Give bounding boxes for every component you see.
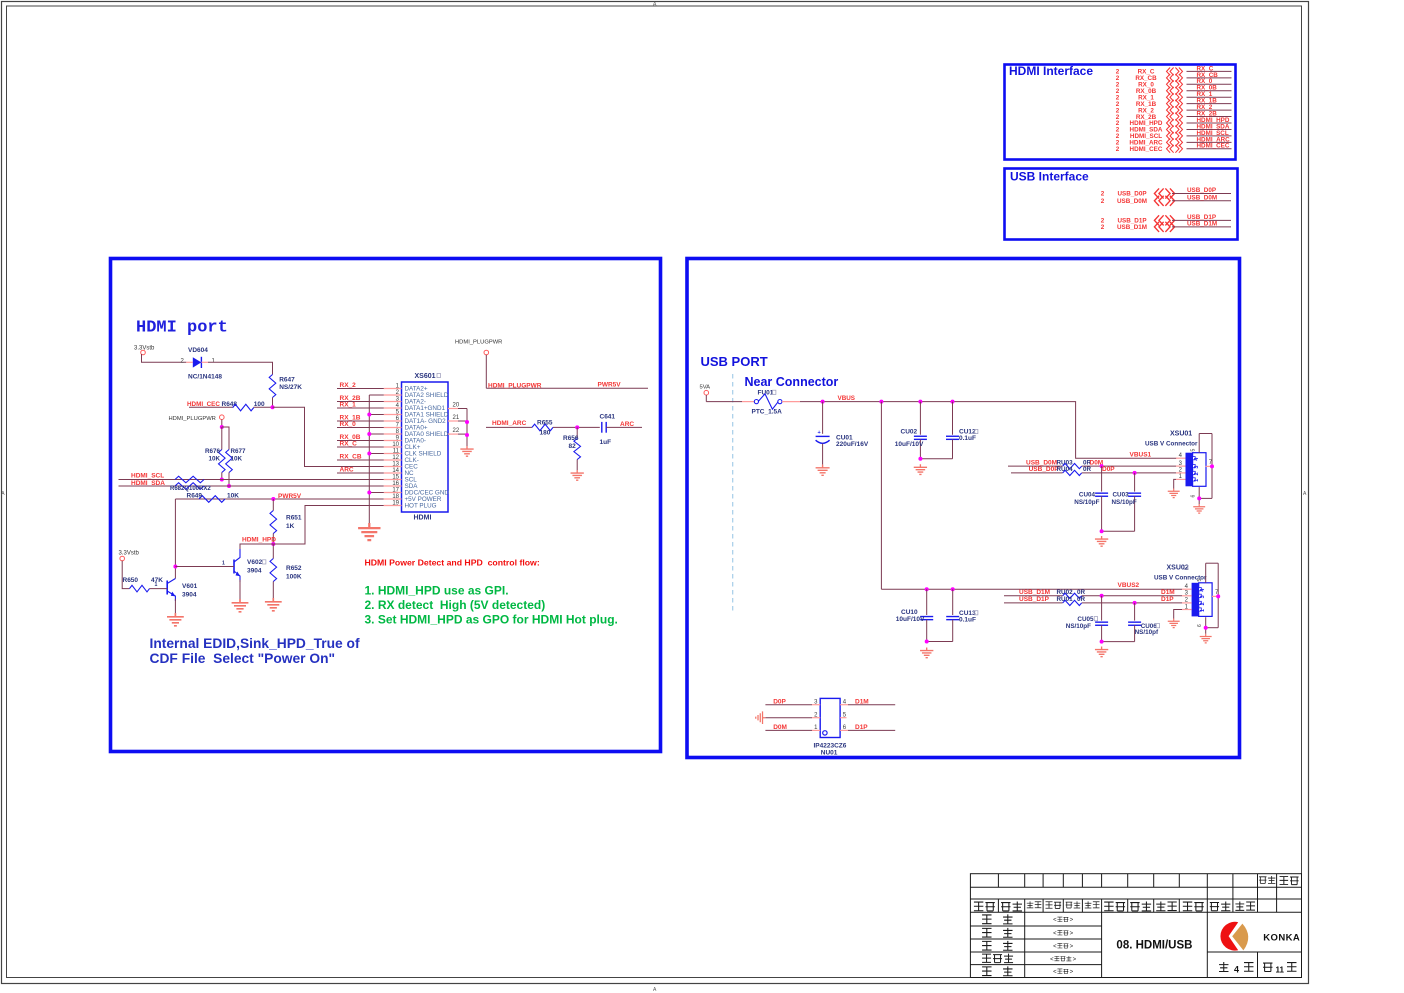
svg-text:5: 5 xyxy=(1197,579,1203,582)
svg-text:<: < xyxy=(1050,957,1054,963)
svg-text:USB_D1M: USB_D1M xyxy=(1187,221,1217,228)
svg-text:RX_CB: RX_CB xyxy=(340,453,362,460)
svg-text:10uF/10V: 10uF/10V xyxy=(895,441,924,448)
svg-text:47K: 47K xyxy=(151,577,163,584)
svg-text:RX_0: RX_0 xyxy=(340,421,357,428)
wire diode to R647 xyxy=(208,362,273,374)
off-page connector USB_D0P xyxy=(1101,187,1231,198)
svg-text:RU02: RU02 xyxy=(1057,589,1074,596)
svg-text:14: 14 xyxy=(392,468,399,474)
svg-text:3: 3 xyxy=(1200,595,1206,598)
svg-text:R676: R676 xyxy=(205,448,221,455)
net label USB_D0P + wire xyxy=(1011,466,1063,473)
wire NU01 pin2 to ground xyxy=(765,717,812,719)
resistor R650 47K xyxy=(123,577,168,592)
svg-text:6: 6 xyxy=(1197,624,1203,627)
junction xyxy=(465,420,469,424)
svg-text:+: + xyxy=(818,430,821,436)
transistor V602 3904 xyxy=(175,549,266,582)
ground (CU04) xyxy=(1095,536,1108,546)
connector XSU02 body xyxy=(1192,583,1213,617)
svg-text:HDMI_SCL: HDMI_SCL xyxy=(131,472,164,479)
svg-text:RU04: RU04 xyxy=(1057,466,1074,473)
svg-text:17: 17 xyxy=(392,488,399,494)
svg-text:NS/10pF: NS/10pF xyxy=(1074,499,1099,506)
ground (XSU02 shield) xyxy=(1200,634,1212,643)
wire CEC to pin 13 xyxy=(273,407,384,466)
svg-text:C641: C641 xyxy=(600,414,616,421)
power terminal 3.3Vstb (top) xyxy=(134,346,155,355)
svg-text:10K: 10K xyxy=(208,456,220,463)
XSU01 shield pins 5/6/7 xyxy=(1190,434,1213,505)
svg-text:USB_D1P: USB_D1P xyxy=(1019,596,1050,603)
junction xyxy=(367,413,371,417)
svg-text:0R: 0R xyxy=(1077,589,1086,596)
net label D1M + wire (NU01 pin4) xyxy=(848,698,895,705)
svg-text:NU01: NU01 xyxy=(821,750,838,757)
title block row labels xyxy=(982,914,1077,975)
junction xyxy=(918,400,922,404)
net label D0P + wire (NU01 pin3) xyxy=(765,698,812,705)
junction xyxy=(1133,601,1137,605)
junction xyxy=(220,478,224,482)
svg-text:22: 22 xyxy=(453,428,460,434)
svg-text:V602: V602 xyxy=(247,559,263,566)
svg-text:HDMI: HDMI xyxy=(414,514,432,521)
junction xyxy=(367,452,371,456)
svg-text:180: 180 xyxy=(540,430,551,437)
power terminal HDMI_PLUGPWR (right) xyxy=(455,340,502,389)
node RX_2 (pin 1) xyxy=(337,382,384,389)
svg-text:2: 2 xyxy=(1200,602,1206,605)
svg-text:3: 3 xyxy=(1194,466,1200,469)
capacitor CU03 NS/10pF xyxy=(1112,473,1142,531)
wire 5VA to fuse xyxy=(706,401,742,403)
junction xyxy=(465,433,469,437)
svg-text:VBUS2: VBUS2 xyxy=(1118,582,1140,589)
ground (XS601 pins 20-22) xyxy=(460,446,473,456)
svg-text:PWR5V: PWR5V xyxy=(278,493,302,500)
svg-text:IP4223CZ6: IP4223CZ6 xyxy=(814,743,847,750)
svg-text:5: 5 xyxy=(1190,449,1196,452)
resistor RU03 0R xyxy=(1057,459,1092,468)
junction xyxy=(821,400,825,404)
svg-text:RX_2: RX_2 xyxy=(340,382,357,389)
svg-text:NS/10pf: NS/10pf xyxy=(1135,629,1159,636)
svg-text:R647: R647 xyxy=(279,377,295,384)
XSU01 pin stubs xyxy=(1176,453,1186,480)
wire CU05/CU06 commons xyxy=(1102,641,1135,643)
net label VBUS1 + wire xyxy=(1130,451,1152,458)
off-page connector RX_CB xyxy=(1116,72,1232,82)
node RX_CB (pin 12) xyxy=(337,453,384,460)
note: HPD steps (green) xyxy=(365,584,618,627)
wire pin 1 to ground (XSU02) xyxy=(1174,610,1182,619)
resistor pack R682 100RX2 xyxy=(170,476,211,492)
svg-text:USB V Connector: USB V Connector xyxy=(1145,441,1198,448)
svg-text:R677: R677 xyxy=(231,448,247,455)
svg-text:<: < xyxy=(1053,931,1057,937)
svg-text:1: 1 xyxy=(222,561,225,567)
svg-text:10K: 10K xyxy=(231,456,243,463)
capacitor CU01 220uF/16V xyxy=(816,402,869,465)
svg-text:4: 4 xyxy=(1234,965,1239,975)
off-page connector RX_2 xyxy=(1116,104,1232,114)
HDMI Interface sheet-symbol box xyxy=(1005,65,1236,160)
svg-text:HDMI_HPD: HDMI_HPD xyxy=(242,536,276,543)
svg-text:1K: 1K xyxy=(286,523,295,530)
wire R647 to junction xyxy=(272,398,274,408)
off-page connector USB_D1P xyxy=(1101,214,1231,225)
net label D0M + wire to pin 3 xyxy=(1082,459,1176,466)
ground (CU01) xyxy=(816,465,830,476)
svg-text:XS601: XS601 xyxy=(415,373,436,380)
svg-text:6: 6 xyxy=(1190,495,1196,498)
wire to R676/R677 xyxy=(221,427,223,450)
svg-text:1: 1 xyxy=(1200,609,1206,612)
XSU02 pin stubs xyxy=(1182,584,1192,610)
svg-text:R649: R649 xyxy=(187,492,203,499)
power terminal 5VA xyxy=(700,385,711,402)
svg-text:21: 21 xyxy=(453,415,460,421)
capacitor CU12 0.1uF xyxy=(946,402,978,459)
wire HPD to V602 collector xyxy=(240,544,273,549)
svg-text:10: 10 xyxy=(392,442,399,448)
svg-text:19: 19 xyxy=(392,501,399,507)
svg-text:USB_D1M: USB_D1M xyxy=(1117,224,1147,231)
svg-text:<: < xyxy=(1053,944,1057,950)
junction xyxy=(925,640,929,644)
svg-text:USB Interface: USB Interface xyxy=(1010,170,1089,184)
capacitor CU06 NS/10pF xyxy=(1128,603,1160,642)
off-page connector RX_0B xyxy=(1116,85,1232,95)
HDMI port section box xyxy=(111,259,661,752)
svg-text:2: 2 xyxy=(1116,146,1120,153)
wire CU10/CU13 commons xyxy=(927,641,953,643)
junction xyxy=(1197,496,1201,500)
ground (V601) xyxy=(167,613,184,626)
svg-text:HDMI_CEC: HDMI_CEC xyxy=(1130,146,1163,153)
off-page connector HDMI_SDA xyxy=(1116,123,1232,133)
junction xyxy=(951,400,955,404)
svg-text:0R: 0R xyxy=(1077,596,1086,603)
svg-text:NS/10pF: NS/10pF xyxy=(1066,623,1091,630)
svg-text:USB_D0P: USB_D0P xyxy=(1117,191,1146,198)
title block table xyxy=(970,874,1301,978)
svg-text:PTC_1.5A: PTC_1.5A xyxy=(752,409,783,416)
svg-text:1: 1 xyxy=(1194,479,1200,482)
svg-text:NC/1N4148: NC/1N4148 xyxy=(188,373,222,380)
capacitor CU10 10uF/10V xyxy=(896,589,933,641)
svg-text:USB_D0P: USB_D0P xyxy=(1029,466,1060,473)
resistor RU04 0R xyxy=(1057,466,1092,475)
svg-text:RU01: RU01 xyxy=(1057,596,1074,603)
svg-text:VBUS1: VBUS1 xyxy=(1130,451,1152,458)
svg-text:NS/27K: NS/27K xyxy=(279,384,302,391)
connector XSU01 (USB V Connector) xyxy=(1145,431,1198,448)
svg-text:>: > xyxy=(1070,970,1074,976)
svg-text:CU02: CU02 xyxy=(901,429,918,436)
svg-text:CDF File Select "Power On": CDF File Select "Power On" xyxy=(150,651,336,666)
node RX_1B (pin 6) xyxy=(337,414,384,421)
resistor R651 1K xyxy=(270,499,302,544)
off-page connector RX_C xyxy=(1116,65,1232,75)
resistor R655 180 xyxy=(532,419,600,436)
junction xyxy=(1216,594,1220,598)
ground (XSU01 pin1) xyxy=(1168,489,1180,498)
svg-text:USB PORT: USB PORT xyxy=(701,354,768,369)
svg-text:<: < xyxy=(1053,918,1057,924)
off-page connector USB_D1M xyxy=(1101,221,1231,232)
resistor R652 100K xyxy=(270,544,302,598)
svg-text:5VA: 5VA xyxy=(700,385,711,391)
off-page connector RX_1B xyxy=(1116,98,1232,108)
junction xyxy=(1100,464,1104,468)
junction xyxy=(367,491,371,495)
junction xyxy=(1210,464,1214,468)
ground (CU05) xyxy=(1095,647,1108,657)
off-page connector RX_1 xyxy=(1116,91,1232,101)
resistor R649 10K + PWR5V rail xyxy=(175,492,383,502)
svg-text:CU03: CU03 xyxy=(1113,492,1130,499)
node ARC (pin 14) xyxy=(337,466,384,473)
connector XSU01 body xyxy=(1186,453,1207,487)
svg-text:0R: 0R xyxy=(1083,466,1092,473)
sheet number cells xyxy=(1219,962,1296,974)
ground (XSU02 pin1) xyxy=(1168,619,1180,628)
svg-text:HDMI_PLUGPWR: HDMI_PLUGPWR xyxy=(169,416,216,422)
ground (CU02) xyxy=(914,464,927,474)
svg-text:R656: R656 xyxy=(563,435,579,442)
svg-text:ARC: ARC xyxy=(340,466,354,473)
svg-text:RX_C: RX_C xyxy=(340,440,358,447)
svg-text:100K: 100K xyxy=(286,574,302,581)
svg-text:>: > xyxy=(1070,931,1074,937)
net label D1M + wire to pin 3 xyxy=(1082,589,1182,596)
XS601 pins 20/21/22 to ground xyxy=(448,403,467,447)
power terminal 3.3Vstb (lower) xyxy=(119,551,140,589)
diode VD604 (NC/1N4148) xyxy=(181,347,223,380)
net label D1P + wire (NU01 pin6) xyxy=(848,724,895,731)
wire R676 to SCL xyxy=(221,473,223,480)
junction xyxy=(271,542,275,546)
junction xyxy=(1100,640,1104,644)
junction xyxy=(220,425,224,429)
off-page connector HDMI_CEC xyxy=(1116,143,1232,153)
ground (CU10) xyxy=(920,648,933,658)
svg-text:V601: V601 xyxy=(182,583,198,590)
svg-text:>: > xyxy=(1070,918,1074,924)
resistor R676 10K xyxy=(205,448,225,472)
net label USB_D1P + wire xyxy=(1004,596,1063,603)
resistor RU01 0R xyxy=(1057,596,1086,606)
svg-text:220uF/16V: 220uF/16V xyxy=(836,441,869,448)
junction xyxy=(951,587,955,591)
capacitor CU02 10uF/10V xyxy=(895,402,927,459)
svg-text:D1P: D1P xyxy=(1161,596,1174,603)
svg-text:15: 15 xyxy=(392,475,399,481)
off-page connector RX_0 xyxy=(1116,78,1232,88)
svg-text:R651: R651 xyxy=(286,515,302,522)
svg-text:0.1uF: 0.1uF xyxy=(959,435,976,442)
ground (XSU01 shield) xyxy=(1193,504,1205,513)
svg-text:R655: R655 xyxy=(537,419,553,426)
off-page connector RX_2B xyxy=(1116,110,1232,120)
node RX_C (pin 10) xyxy=(337,440,384,447)
shield bus wire (pins 2,5,8,11,17) xyxy=(369,395,384,523)
svg-text:XSU01: XSU01 xyxy=(1170,431,1192,438)
resistor R647 NS/27K xyxy=(269,375,302,398)
svg-text:ARC: ARC xyxy=(620,421,634,428)
node RX_0B (pin 9) xyxy=(337,434,384,441)
junction xyxy=(1100,594,1104,598)
title block header texts xyxy=(974,876,1299,911)
svg-text:USB_D1M: USB_D1M xyxy=(1019,589,1050,596)
svg-text:2: 2 xyxy=(1101,224,1105,231)
svg-text:D0P: D0P xyxy=(1102,466,1115,473)
net label HDMI_SDA + wire xyxy=(119,480,384,487)
capacitor C641 1uF xyxy=(600,414,643,447)
ground (R652) xyxy=(265,598,282,611)
net label D0P + wire to pin 2 xyxy=(1082,466,1176,473)
svg-text:3.3Vstb: 3.3Vstb xyxy=(119,551,140,557)
junction xyxy=(575,425,579,429)
XSU02 shield pins 5/6/7 xyxy=(1197,563,1219,634)
svg-text:USB_D0M: USB_D0M xyxy=(1117,198,1147,205)
fuse FU01 PTC_1.5A xyxy=(742,390,800,416)
svg-text:HDMI Power Detect and HPD con: HDMI Power Detect and HPD control flow: xyxy=(365,558,540,568)
svg-text:Internal EDID,Sink_HPD_True of: Internal EDID,Sink_HPD_True of xyxy=(150,636,360,651)
svg-text:3. Set HDMI_HPD as GPO for HDM: 3. Set HDMI_HPD as GPO for HDMI Hot plug… xyxy=(365,613,618,627)
capacitor CU05 NS/10pF xyxy=(1066,596,1108,642)
wire VBUS1 to pin 4 xyxy=(1175,457,1177,459)
junction xyxy=(271,497,275,501)
off-page connector HDMI_HPD xyxy=(1116,117,1232,127)
wire CU02/CU12 commons xyxy=(920,458,952,460)
svg-text:D1M: D1M xyxy=(1161,589,1175,596)
svg-text:1uF: 1uF xyxy=(600,439,612,446)
junction xyxy=(173,565,177,569)
net label D0M + wire (NU01 pin1) xyxy=(765,724,812,731)
svg-text:CU05: CU05 xyxy=(1077,616,1094,623)
ground (NU01 pin2, rotated) xyxy=(756,711,766,724)
wire R677 to SDA xyxy=(228,473,230,487)
power terminal HDMI_PLUGPWR (left) xyxy=(169,415,225,427)
svg-text:HDMI Interface: HDMI Interface xyxy=(1009,64,1093,78)
svg-text:>: > xyxy=(1073,957,1077,963)
svg-text:16: 16 xyxy=(392,481,399,487)
wire VBUS rail xyxy=(800,402,1176,459)
junction xyxy=(925,587,929,591)
svg-text:3904: 3904 xyxy=(247,568,262,575)
junction xyxy=(1100,529,1104,533)
resistor R677 10K xyxy=(226,448,246,472)
resistor R648 100 xyxy=(222,401,273,411)
net label USB_D1M + wire xyxy=(1004,589,1063,596)
near-connector boundary dashed line xyxy=(732,374,734,611)
svg-text:R682Q100RX2: R682Q100RX2 xyxy=(170,486,211,492)
svg-text:11: 11 xyxy=(1276,966,1285,975)
svg-text:<: < xyxy=(1053,970,1057,976)
svg-text:USB_D0P: USB_D0P xyxy=(1187,187,1216,194)
svg-text:HDMI_CEC: HDMI_CEC xyxy=(1197,143,1230,150)
note: internal EDID (blue) xyxy=(150,636,360,666)
svg-text:HDMI_ARC: HDMI_ARC xyxy=(492,420,527,427)
connector XS601 (HDMI) xyxy=(384,373,450,521)
junction xyxy=(918,457,922,461)
svg-text:2. RX detect High (5V detecte: 2. RX detect High (5V detected) xyxy=(365,598,546,612)
svg-text:HOT PLUG: HOT PLUG xyxy=(405,503,437,510)
net label HDMI_CEC xyxy=(187,401,233,408)
svg-text:13: 13 xyxy=(392,462,399,468)
svg-text:2: 2 xyxy=(1101,198,1105,205)
svg-text:R650: R650 xyxy=(123,577,139,584)
net label USB_D0M + wire xyxy=(1008,459,1063,466)
svg-text:HDMI port: HDMI port xyxy=(136,319,228,338)
svg-text:1. HDMI_HPD use as GPI.: 1. HDMI_HPD use as GPI. xyxy=(365,584,509,598)
junction xyxy=(1204,626,1208,630)
junction xyxy=(271,405,275,409)
svg-text:CU04: CU04 xyxy=(1079,492,1096,499)
svg-text:10uF/10V: 10uF/10V xyxy=(896,616,925,623)
svg-text:RX_1: RX_1 xyxy=(340,401,357,408)
svg-text:11: 11 xyxy=(393,449,400,455)
node RX_0 (pin 7) xyxy=(337,421,384,428)
USB PORT section box xyxy=(687,259,1240,758)
svg-text:10K: 10K xyxy=(227,492,239,499)
wire VBUS to VBUS2 riser xyxy=(880,402,882,590)
junction xyxy=(227,484,231,488)
svg-text:KONKA: KONKA xyxy=(1263,933,1300,944)
svg-text:NS/10pF: NS/10pF xyxy=(1112,499,1137,506)
svg-text:3904: 3904 xyxy=(182,592,197,599)
node RX_1 (pin 4) xyxy=(337,401,384,408)
node RX_2B (pin 3) xyxy=(337,395,384,402)
net label D1P + wire to pin 2 xyxy=(1082,596,1182,603)
wire pin 1 to ground xyxy=(1174,479,1176,488)
svg-text:PWR5V: PWR5V xyxy=(598,382,622,389)
svg-text:20: 20 xyxy=(453,403,460,409)
net label VBUS2 + wire xyxy=(881,582,1182,589)
ground (V602) xyxy=(232,599,249,612)
svg-text:2: 2 xyxy=(1194,472,1200,475)
connector XSU02 (USB V Connector) xyxy=(1154,565,1207,582)
svg-text:USB_D0M: USB_D0M xyxy=(1187,195,1217,202)
wire PWR5V rail down to V601 collector xyxy=(174,499,176,579)
svg-text:HDMI_PLUGPWR: HDMI_PLUGPWR xyxy=(455,340,502,346)
off-page connector USB_D0M xyxy=(1101,195,1231,206)
svg-text:HDMI_PLUGPWR: HDMI_PLUGPWR xyxy=(488,382,542,389)
svg-text:82: 82 xyxy=(569,443,577,450)
capacitor CU04 NS/10pF xyxy=(1074,466,1108,531)
wire HPD to pin 19 xyxy=(273,506,384,545)
wire V602 emitter to ground xyxy=(239,580,241,599)
svg-text:>: > xyxy=(1070,944,1074,950)
transistor V601 3904 xyxy=(155,579,198,602)
net label HDMI_SCL + wire xyxy=(119,472,384,479)
wire CU04/CU03 commons xyxy=(1102,530,1135,532)
svg-text:18: 18 xyxy=(392,494,399,500)
wire HDMI_PLUGPWR to PWR5V xyxy=(486,387,648,389)
svg-text:VD604: VD604 xyxy=(188,347,208,354)
svg-text:08. HDMI/USB: 08. HDMI/USB xyxy=(1116,940,1192,952)
resistor RU02 0R xyxy=(1057,589,1086,599)
USB Interface sheet-symbol box xyxy=(1005,169,1238,240)
ground (shield bus) xyxy=(358,523,380,540)
net label HDMI_ARC + wire xyxy=(486,420,532,428)
wire 3.3Vstb to diode xyxy=(142,354,187,362)
resistor R656 82 xyxy=(563,427,581,470)
